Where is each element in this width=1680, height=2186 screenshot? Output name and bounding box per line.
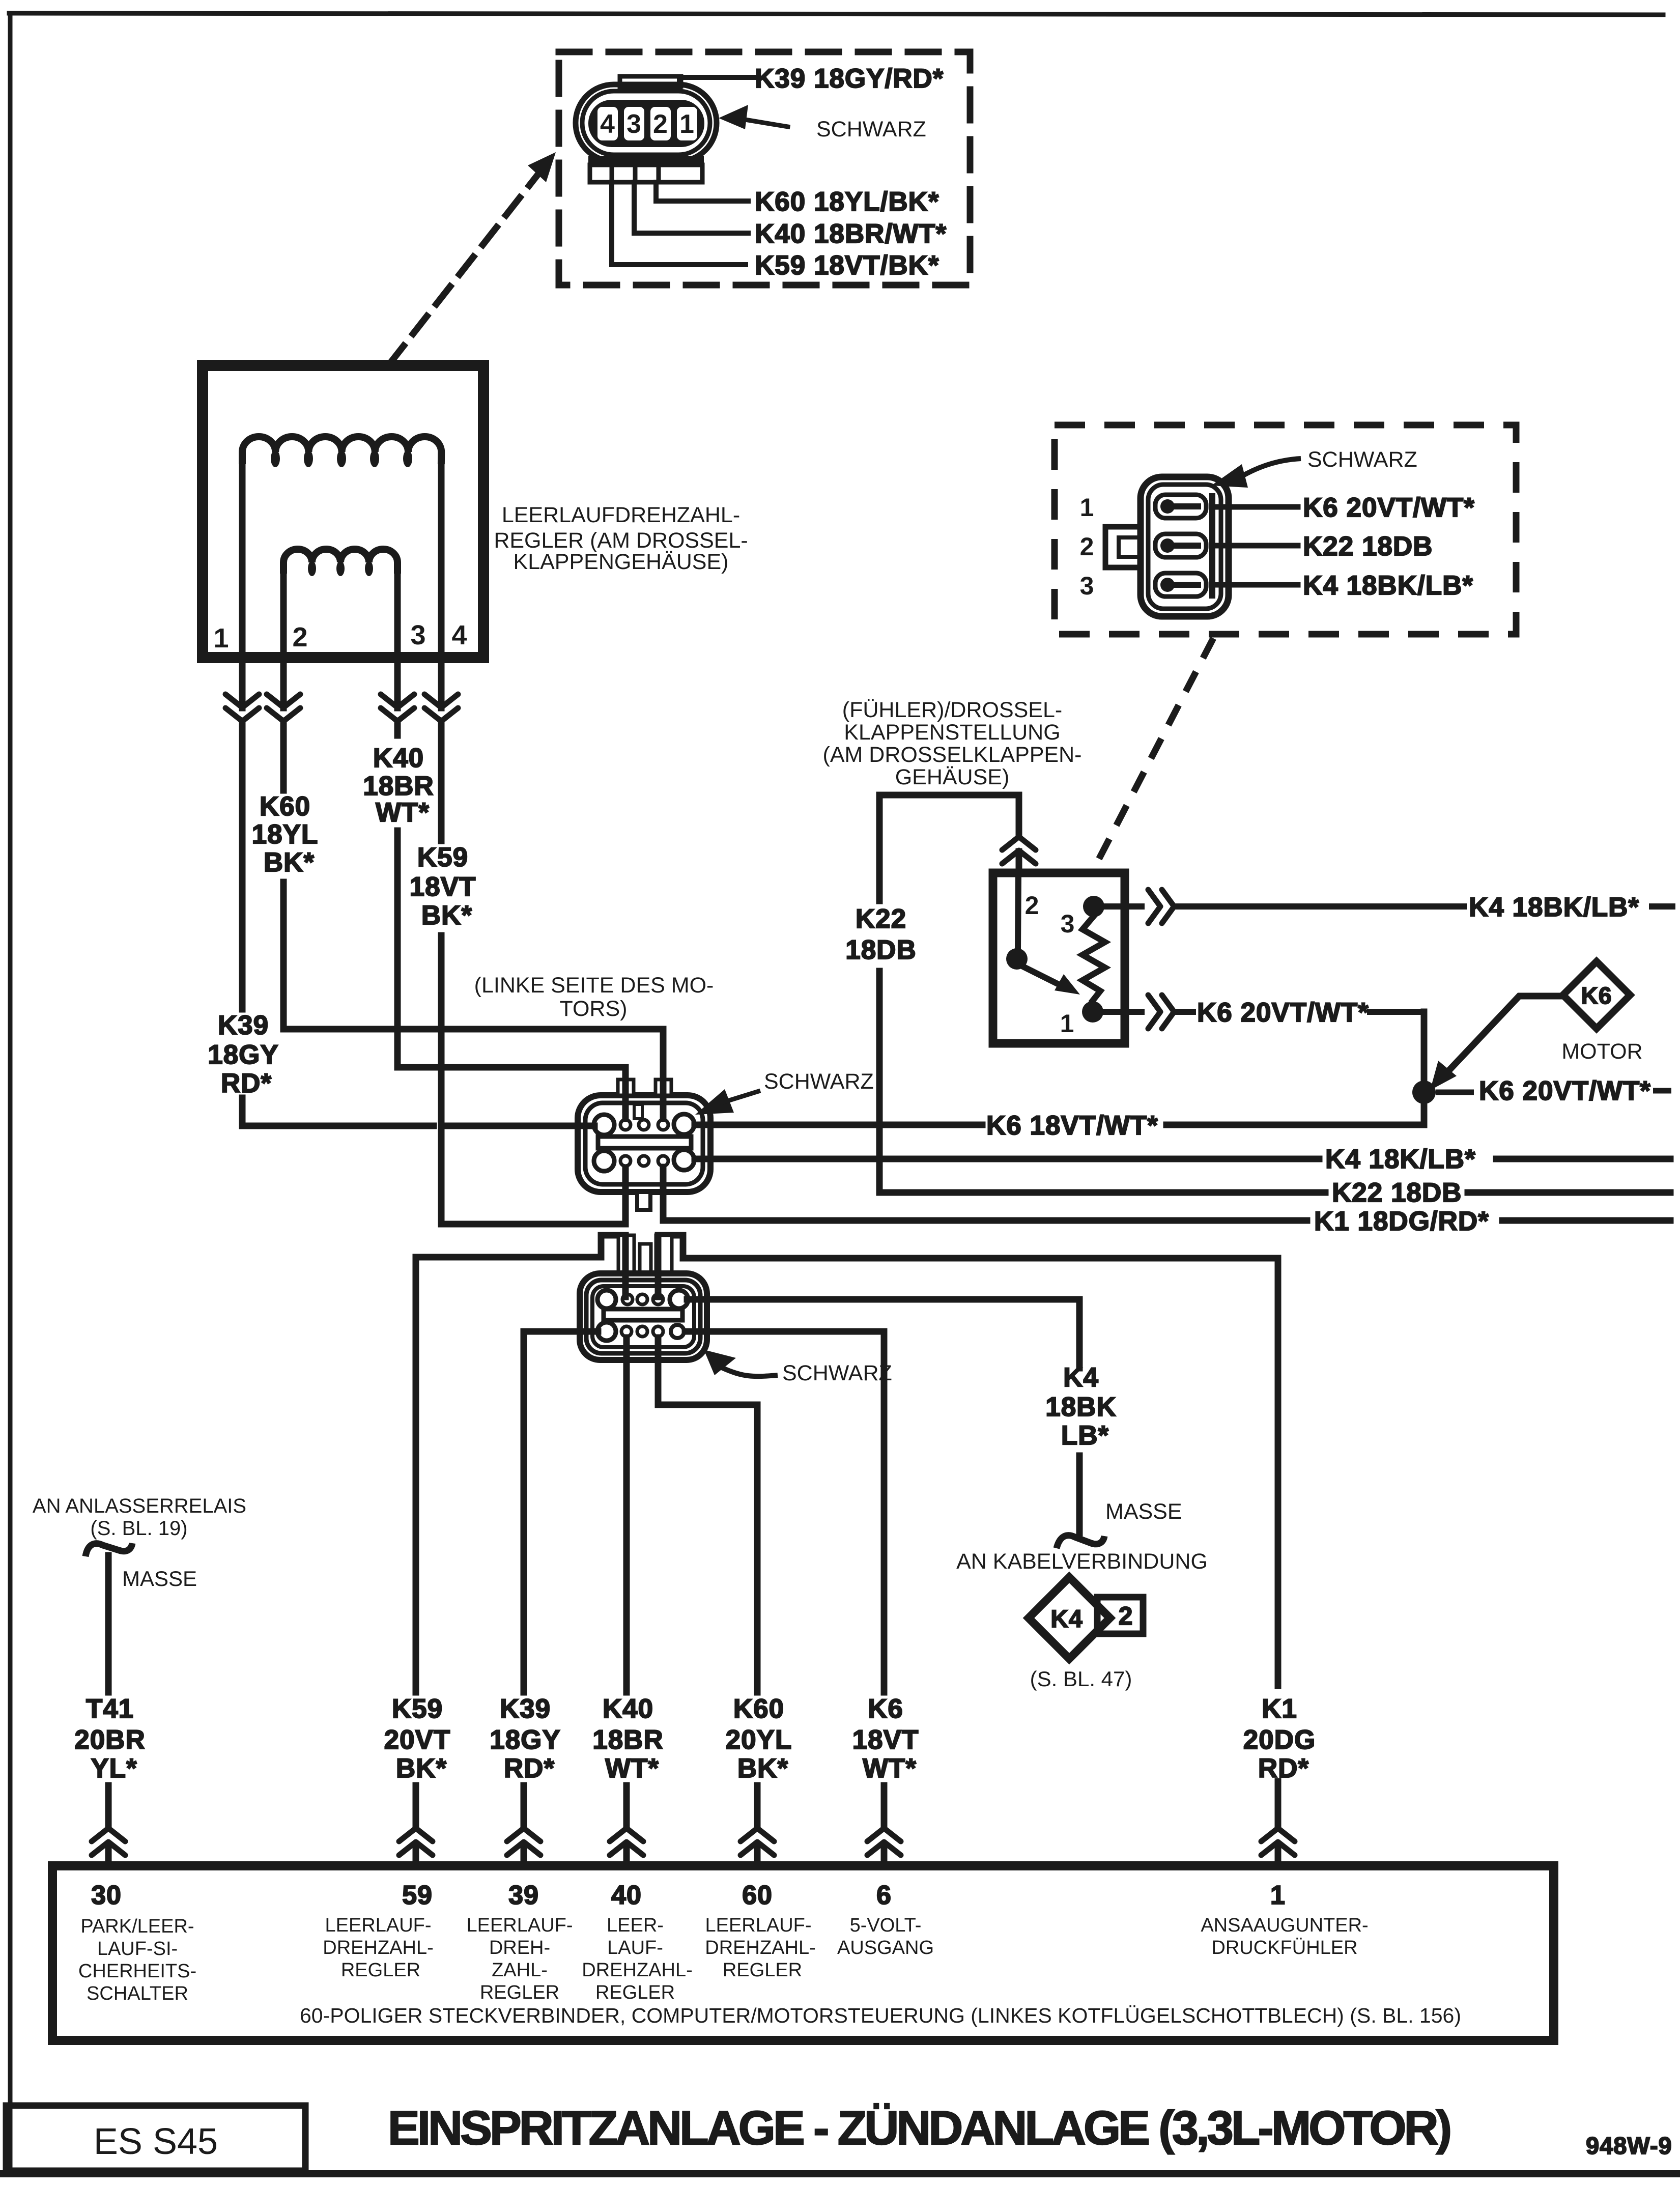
wire K22 upper run bbox=[879, 795, 1019, 1193]
svg-text:BK*: BK* bbox=[264, 847, 315, 877]
svg-text:LEERLAUF-: LEERLAUF- bbox=[466, 1915, 573, 1936]
svg-text:K4: K4 bbox=[1050, 1606, 1083, 1633]
svg-text:KLAPPENGEHÄUSE): KLAPPENGEHÄUSE) bbox=[514, 550, 729, 574]
svg-text:RD*: RD* bbox=[504, 1753, 555, 1783]
connector C1 inner notch bbox=[634, 1104, 642, 1119]
svg-text:6: 6 bbox=[876, 1881, 892, 1910]
chevrons up ECM pin60 bbox=[741, 1828, 774, 1855]
wire K6 18VT/WT from C1 bbox=[695, 1012, 1424, 1125]
svg-text:CHERHEITS-: CHERHEITS- bbox=[78, 1961, 196, 1982]
svg-text:18DB: 18DB bbox=[845, 935, 917, 965]
svg-text:59: 59 bbox=[402, 1881, 433, 1910]
svg-text:K4 18BK/LB*: K4 18BK/LB* bbox=[1303, 571, 1473, 601]
splice diamond K4 bbox=[1029, 1577, 1110, 1659]
svg-text:18BK: 18BK bbox=[1045, 1392, 1117, 1422]
connector C2 inner shell bbox=[592, 1286, 694, 1347]
wire C2 to ECM pin40 bbox=[623, 1338, 630, 1867]
C1 pin circles bottom row bbox=[594, 1151, 614, 1171]
base divider a bbox=[610, 165, 614, 182]
svg-text:(AM DROSSELKLAPPEN-: (AM DROSSELKLAPPEN- bbox=[823, 743, 1082, 767]
svg-text:TORS): TORS) bbox=[560, 997, 628, 1021]
svg-text:1: 1 bbox=[1270, 1881, 1286, 1910]
wire K59 (coil pin4) bbox=[441, 461, 625, 1224]
svg-text:18BR: 18BR bbox=[363, 771, 434, 801]
bottom rule bbox=[0, 2170, 1676, 2177]
svg-text:(S. BL. 47): (S. BL. 47) bbox=[1030, 1667, 1132, 1691]
svg-text:DREHZAHL-: DREHZAHL- bbox=[323, 1937, 433, 1958]
svg-text:20DG: 20DG bbox=[1243, 1725, 1316, 1755]
svg-text:2: 2 bbox=[292, 622, 308, 652]
svg-text:3: 3 bbox=[1080, 572, 1095, 600]
svg-text:DREHZAHL-: DREHZAHL- bbox=[705, 1937, 815, 1958]
svg-text:WT*: WT* bbox=[376, 798, 430, 828]
connector C3 outer shell bbox=[1141, 477, 1229, 616]
connector C3 side tab inner bbox=[1119, 537, 1141, 557]
wire K4 18K/LB long line bbox=[695, 1156, 1670, 1162]
connector C1 bottom latch bbox=[637, 1192, 650, 1210]
svg-text:SCHWARZ: SCHWARZ bbox=[816, 117, 926, 141]
ECM 60-way connector box bbox=[52, 1866, 1554, 2040]
wire K6 20VT/WT from sensor bbox=[1177, 1009, 1424, 1015]
sensor wiper feed bbox=[1018, 877, 1018, 950]
svg-text:MOTOR: MOTOR bbox=[1561, 1039, 1642, 1064]
wire stubs through C2 cap tabs bbox=[625, 1235, 658, 1273]
connector C2 cap notch bbox=[640, 1244, 651, 1273]
cavity 2 bbox=[650, 107, 671, 140]
wire label K6 20VT/WT* (right) bbox=[1436, 1091, 1671, 1092]
svg-text:1: 1 bbox=[1080, 493, 1095, 522]
wire pigtail K59 bbox=[612, 182, 746, 265]
svg-text:3: 3 bbox=[410, 620, 426, 650]
svg-text:SCHWARZ: SCHWARZ bbox=[764, 1069, 874, 1094]
C3 terminal 1 bbox=[1155, 495, 1206, 518]
C3 pin wires bbox=[1217, 507, 1298, 585]
svg-text:20BR: 20BR bbox=[74, 1725, 146, 1755]
svg-text:K39: K39 bbox=[218, 1010, 269, 1040]
inline connector chevrons K39 bbox=[225, 694, 259, 721]
svg-text:ANSAAUGUNTER-: ANSAAUGUNTER- bbox=[1201, 1915, 1368, 1936]
connector C2 mid shell bbox=[586, 1280, 700, 1353]
svg-text:60: 60 bbox=[742, 1881, 773, 1910]
arrowhead SCHWARZ C1 bbox=[695, 1089, 734, 1115]
sensor wiper arm bbox=[1018, 964, 1063, 986]
C3 terminal 2 bbox=[1155, 534, 1206, 557]
wire C2 to ECM pin6 bbox=[685, 1331, 884, 1867]
svg-text:ZAHL-: ZAHL- bbox=[492, 1960, 548, 1981]
svg-text:K4: K4 bbox=[1063, 1362, 1099, 1393]
connector C1 inner shell bbox=[585, 1103, 703, 1184]
svg-text:SCHALTER: SCHALTER bbox=[87, 1983, 188, 2004]
svg-text:20VT: 20VT bbox=[384, 1725, 451, 1755]
arrowhead SCHWARZ C2 bbox=[704, 1350, 736, 1375]
connector base band bbox=[588, 156, 704, 165]
wire K22 18DB long line bbox=[879, 1189, 1670, 1196]
wire K60 (coil pin2) bbox=[283, 570, 663, 1119]
svg-text:K6: K6 bbox=[868, 1694, 903, 1724]
wire stubs through C1 tabs bbox=[625, 1080, 663, 1095]
svg-text:REGLER: REGLER bbox=[723, 1960, 802, 1981]
svg-text:18GY: 18GY bbox=[208, 1040, 279, 1070]
leader dashed to coil bbox=[390, 175, 537, 363]
wire pigtail K40 bbox=[634, 182, 748, 233]
connector C2 slot bbox=[604, 1309, 682, 1320]
chevrons up ECM pin40 bbox=[610, 1828, 643, 1855]
svg-text:3: 3 bbox=[1061, 910, 1075, 938]
cavity 3 bbox=[624, 107, 644, 140]
cavity 4 bbox=[597, 107, 618, 140]
svg-text:3: 3 bbox=[627, 109, 642, 139]
leader line SCHWARZ C3 bbox=[1240, 459, 1301, 477]
connector C3 side tab bbox=[1105, 527, 1141, 567]
svg-text:ES S45: ES S45 bbox=[94, 2121, 218, 2162]
leader line SCHWARZ C1 bbox=[723, 1091, 760, 1102]
arrowhead on dashed leader bbox=[528, 152, 556, 182]
svg-text:SCHWARZ: SCHWARZ bbox=[1307, 447, 1417, 472]
connector C2 outer shell bbox=[580, 1273, 707, 1360]
svg-text:K6: K6 bbox=[1581, 982, 1612, 1009]
svg-text:REGLER: REGLER bbox=[595, 1982, 675, 2003]
svg-text:MASSE: MASSE bbox=[1105, 1499, 1182, 1524]
inline connector chevrons K60 bbox=[267, 694, 300, 721]
svg-text:(FÜHLER)/DROSSEL-: (FÜHLER)/DROSSEL- bbox=[842, 698, 1062, 722]
svg-text:2: 2 bbox=[653, 109, 668, 139]
svg-text:K59 18VT/BK*: K59 18VT/BK* bbox=[755, 250, 939, 280]
sensor pin dots bbox=[1006, 948, 1028, 970]
wire K4 branch to splice bbox=[687, 1299, 1079, 1533]
leader line SCHWARZ C2 bbox=[722, 1368, 778, 1376]
detail box (dashed) for 4-way connector bbox=[559, 52, 970, 285]
svg-text:PARK/LEER-: PARK/LEER- bbox=[80, 1916, 194, 1937]
chevrons right sensor pin1 bbox=[1148, 995, 1174, 1029]
svg-text:LEERLAUFDREHZAHL-: LEERLAUFDREHZAHL- bbox=[502, 503, 740, 527]
wire pigtail K60 bbox=[656, 182, 748, 201]
svg-text:20YL: 20YL bbox=[726, 1725, 792, 1755]
svg-text:EINSPRITZANLAGE - ZÜNDANLAGE (: EINSPRITZANLAGE - ZÜNDANLAGE (3,3L-MOTOR… bbox=[388, 2101, 1453, 2154]
inline connector chevrons K59 bbox=[424, 694, 458, 721]
svg-text:T41: T41 bbox=[86, 1694, 134, 1724]
splice diamond K6 bbox=[1563, 961, 1630, 1029]
arrowhead K6 leader bbox=[1430, 1061, 1457, 1090]
svg-text:K1 18DG/RD*: K1 18DG/RD* bbox=[1314, 1206, 1489, 1236]
svg-text:18YL: 18YL bbox=[252, 819, 319, 849]
chevrons up sensor feed bbox=[1002, 837, 1036, 864]
wire T41 to ECM pin30 bbox=[105, 1555, 112, 1867]
svg-text:K6 20VT/WT*: K6 20VT/WT* bbox=[1197, 998, 1369, 1028]
splice ref box 2 bbox=[1097, 1597, 1143, 1634]
C2 pin circles bottom row bbox=[597, 1322, 616, 1341]
svg-text:DREHZAHL-: DREHZAHL- bbox=[582, 1960, 692, 1981]
svg-text:LEERLAUF-: LEERLAUF- bbox=[705, 1915, 811, 1936]
svg-text:BK*: BK* bbox=[396, 1753, 447, 1783]
cavity 1 bbox=[677, 107, 697, 140]
base divider c bbox=[657, 165, 661, 182]
svg-text:REGLER: REGLER bbox=[480, 1982, 559, 2003]
svg-text:K4 18BK/LB*: K4 18BK/LB* bbox=[1469, 892, 1639, 922]
svg-text:REGLER (AM DROSSEL-: REGLER (AM DROSSEL- bbox=[494, 528, 748, 553]
svg-text:GEHÄUSE): GEHÄUSE) bbox=[895, 765, 1010, 789]
sensor resistor bbox=[1083, 916, 1105, 1001]
svg-text:DRUCKFÜHLER: DRUCKFÜHLER bbox=[1211, 1937, 1357, 1958]
svg-text:(S. BL. 19): (S. BL. 19) bbox=[90, 1517, 187, 1540]
connector C1 slot bbox=[598, 1137, 691, 1148]
svg-text:K6 20VT/WT*: K6 20VT/WT* bbox=[1479, 1076, 1651, 1106]
chevrons up ECM pin6 bbox=[867, 1828, 901, 1855]
svg-text:K6 20VT/WT*: K6 20VT/WT* bbox=[1303, 493, 1475, 523]
svg-text:LB*: LB* bbox=[1061, 1421, 1109, 1451]
svg-text:LEER-: LEER- bbox=[607, 1915, 664, 1936]
svg-text:KLAPPENSTELLUNG: KLAPPENSTELLUNG bbox=[844, 720, 1060, 745]
svg-text:K59: K59 bbox=[417, 842, 468, 872]
svg-text:948W-9: 948W-9 bbox=[1586, 2132, 1672, 2159]
connector C2 cap tab b bbox=[656, 1235, 672, 1273]
svg-text:K6 18VT/WT*: K6 18VT/WT* bbox=[986, 1111, 1158, 1141]
svg-text:K40 18BR/WT*: K40 18BR/WT* bbox=[755, 219, 947, 249]
wire pigtail K39 bbox=[679, 77, 754, 91]
connector C-4way latch bump bbox=[620, 76, 681, 87]
svg-text:2: 2 bbox=[1080, 532, 1095, 561]
svg-text:1: 1 bbox=[679, 109, 695, 139]
chevrons right sensor pin3 bbox=[1148, 890, 1174, 923]
svg-text:18BR: 18BR bbox=[592, 1725, 664, 1755]
svg-text:K39 18GY/RD*: K39 18GY/RD* bbox=[755, 64, 944, 94]
base divider b bbox=[633, 165, 638, 182]
svg-text:MASSE: MASSE bbox=[122, 1567, 197, 1591]
leader from K6 diamond bbox=[1442, 996, 1563, 1078]
svg-text:DREH-: DREH- bbox=[489, 1937, 550, 1958]
ground hook T41 bbox=[86, 1543, 132, 1556]
connector C1 outer shell bbox=[578, 1095, 710, 1192]
connector C-4way outer shell bbox=[576, 84, 717, 161]
wire K1 stub from C1 pin bbox=[660, 1167, 667, 1220]
svg-text:5-VOLT-: 5-VOLT- bbox=[850, 1915, 922, 1936]
coil L1 loop drops bbox=[271, 450, 280, 467]
svg-text:K60: K60 bbox=[733, 1694, 784, 1724]
connector C-4way face (black) bbox=[588, 100, 704, 147]
C1 pin circles top row bbox=[594, 1115, 614, 1135]
arrowhead SCHWARZ C3 bbox=[1211, 464, 1248, 488]
arrowhead to connector bbox=[719, 105, 748, 129]
coil L2 loop drops bbox=[308, 561, 316, 576]
svg-text:K60: K60 bbox=[260, 791, 310, 821]
chevrons up ECM pin1 bbox=[1261, 1828, 1295, 1855]
page border left bbox=[8, 13, 13, 2172]
ground hook K4 bbox=[1057, 1536, 1104, 1548]
svg-text:K60 18YL/BK*: K60 18YL/BK* bbox=[755, 187, 939, 217]
wire K59 route to C2 bbox=[416, 1235, 625, 1297]
svg-text:K40: K40 bbox=[603, 1694, 653, 1724]
wire ECM pin59 vertical bbox=[413, 1257, 419, 1867]
chevrons up ECM pin39 bbox=[507, 1828, 540, 1855]
svg-text:1: 1 bbox=[1060, 1009, 1075, 1038]
svg-text:WT*: WT* bbox=[605, 1753, 659, 1783]
connector C3 inner shell bbox=[1148, 485, 1221, 609]
svg-text:39: 39 bbox=[508, 1881, 539, 1910]
svg-text:60-POLIGER STECKVERBINDER, COM: 60-POLIGER STECKVERBINDER, COMPUTER/MOTO… bbox=[300, 2004, 1461, 2027]
wire K1 18DG/RD long line bbox=[663, 1217, 1670, 1224]
svg-text:WT*: WT* bbox=[863, 1753, 917, 1783]
sensor out pin3 bbox=[1103, 903, 1142, 910]
svg-text:AN ANLASSERRELAIS: AN ANLASSERRELAIS bbox=[33, 1495, 246, 1517]
page border top bbox=[9, 13, 1663, 15]
svg-text:RD*: RD* bbox=[1258, 1753, 1309, 1783]
svg-text:30: 30 bbox=[91, 1881, 122, 1910]
ES S45 title box bbox=[6, 2106, 305, 2171]
svg-text:K22: K22 bbox=[856, 904, 906, 934]
svg-text:K40: K40 bbox=[373, 743, 424, 773]
chevrons up ECM pin59 bbox=[399, 1828, 433, 1855]
svg-text:K22 18DB: K22 18DB bbox=[1332, 1178, 1462, 1208]
sensor out pin1 bbox=[1102, 1009, 1142, 1015]
coil L2 (pins 2-3) bbox=[283, 549, 397, 570]
wire ECM pin1 lower segments bbox=[1275, 1781, 1282, 1867]
wire K1 route from C2 to ECM pin1 bbox=[658, 1235, 1278, 1686]
svg-text:40: 40 bbox=[611, 1881, 642, 1910]
junction dot K6 bbox=[1412, 1081, 1436, 1104]
wire K39 vertical (coil pin1) bbox=[242, 461, 594, 1126]
svg-text:18VT: 18VT bbox=[852, 1725, 919, 1755]
svg-text:K39: K39 bbox=[500, 1694, 551, 1724]
svg-text:2: 2 bbox=[1025, 891, 1040, 920]
wire K40 (coil pin3) bbox=[397, 570, 625, 1119]
svg-text:1: 1 bbox=[213, 623, 229, 654]
coil L1 (pins 1-4) bbox=[242, 437, 441, 461]
connector C1 top tab b bbox=[656, 1080, 671, 1095]
chevrons up ECM pin30 bbox=[92, 1828, 125, 1855]
connector C-4way inner shell bbox=[582, 91, 710, 155]
svg-text:18GY: 18GY bbox=[490, 1725, 561, 1755]
throttle position sensor box bbox=[993, 873, 1125, 1043]
svg-text:LAUF-SI-: LAUF-SI- bbox=[97, 1938, 178, 1960]
svg-text:YL*: YL* bbox=[91, 1753, 137, 1783]
svg-text:K22 18DB: K22 18DB bbox=[1303, 531, 1433, 561]
svg-text:2: 2 bbox=[1119, 1602, 1133, 1630]
wire C2 to ECM pin60 bbox=[658, 1338, 757, 1867]
C2 pin circles top row bbox=[597, 1290, 616, 1309]
connector base frame bbox=[590, 165, 702, 182]
svg-text:RD*: RD* bbox=[221, 1068, 272, 1098]
inline connector chevrons K40 bbox=[381, 694, 414, 721]
idle air control motor box bbox=[203, 365, 483, 658]
svg-text:K59: K59 bbox=[392, 1694, 443, 1724]
svg-text:4: 4 bbox=[600, 109, 615, 139]
svg-text:LEERLAUF-: LEERLAUF- bbox=[325, 1915, 431, 1936]
svg-text:SCHWARZ: SCHWARZ bbox=[782, 1361, 892, 1385]
wire K4 18BK/LB from sensor bbox=[1177, 903, 1672, 910]
connector C1 top tab a bbox=[618, 1080, 634, 1095]
svg-text:BK*: BK* bbox=[421, 900, 472, 930]
svg-text:BK*: BK* bbox=[737, 1753, 788, 1783]
connector C2 cap tab a bbox=[618, 1235, 634, 1273]
svg-text:K4 18K/LB*: K4 18K/LB* bbox=[1325, 1144, 1476, 1174]
svg-text:18VT: 18VT bbox=[410, 872, 476, 902]
C3 terminal 3 bbox=[1155, 573, 1206, 597]
svg-text:4: 4 bbox=[451, 620, 467, 650]
wire C2 to ECM pin39 bbox=[524, 1331, 598, 1867]
svg-text:AUSGANG: AUSGANG bbox=[837, 1937, 934, 1958]
leader line to SCHWARZ bbox=[742, 119, 788, 127]
sensor wiper arrowhead bbox=[1055, 974, 1080, 995]
C3 internal bar bbox=[1209, 496, 1215, 595]
C3 terminal blobs bbox=[1160, 499, 1175, 514]
svg-text:AN KABELVERBINDUNG: AN KABELVERBINDUNG bbox=[956, 1549, 1208, 1574]
svg-text:K1: K1 bbox=[1262, 1694, 1297, 1724]
svg-text:REGLER: REGLER bbox=[341, 1960, 420, 1981]
leader dashed to sensor bbox=[1097, 638, 1213, 862]
detail box (dashed) 3-way connector bbox=[1055, 425, 1516, 634]
svg-text:LAUF-: LAUF- bbox=[607, 1937, 663, 1958]
svg-text:(LINKE SEITE DES MO-: (LINKE SEITE DES MO- bbox=[474, 973, 714, 998]
